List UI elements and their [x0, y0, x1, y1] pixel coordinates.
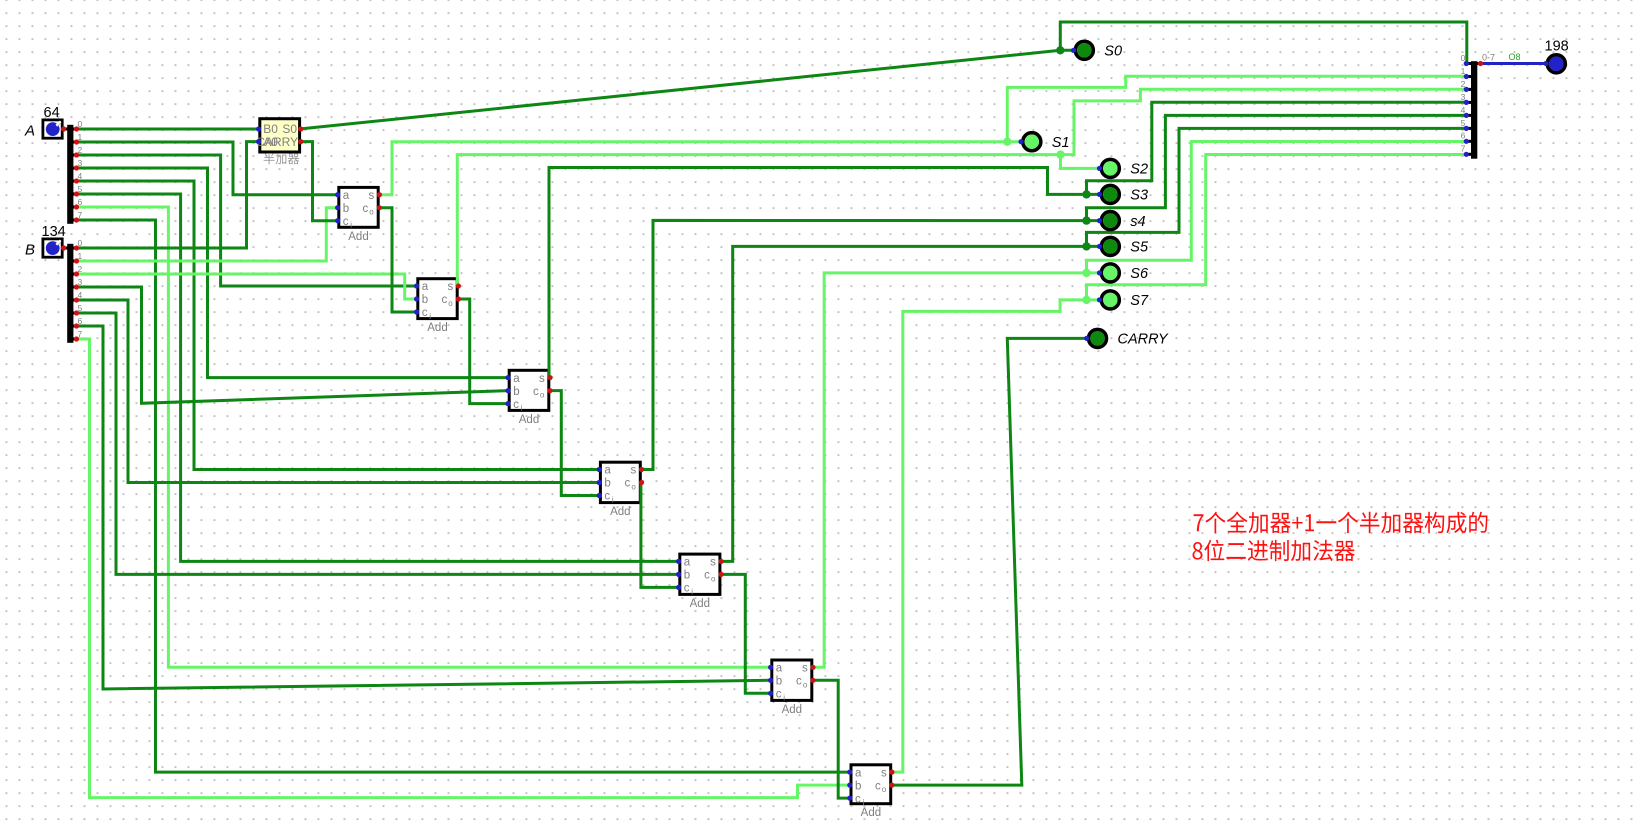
svg-text:a: a	[513, 373, 520, 385]
svg-text:O8: O8	[1509, 52, 1521, 62]
wire A7 (A bit7 to Add7 input a)	[77, 220, 853, 772]
svg-text:a: a	[855, 767, 862, 779]
svg-text:o: o	[711, 574, 716, 583]
svg-text:c: c	[875, 780, 881, 792]
svg-text:s: s	[881, 767, 887, 779]
wire B3 (B bit3 to Add3 input b, diagonal)	[77, 287, 509, 403]
svg-text:64: 64	[44, 105, 60, 121]
svg-text:b: b	[855, 780, 861, 792]
svg-text:o: o	[882, 785, 887, 794]
svg-text:S2: S2	[1130, 162, 1148, 178]
half-adder label 半加器	[264, 153, 300, 164]
svg-text:i: i	[612, 496, 614, 505]
svg-text:s: s	[802, 663, 808, 675]
svg-text:S0: S0	[1104, 44, 1122, 60]
input pin A (value 64)	[24, 105, 62, 140]
output led S1	[1023, 133, 1070, 151]
svg-text:i: i	[691, 587, 693, 596]
wire B6 (B bit6 to Add6 input b, diagonal)	[77, 326, 771, 689]
svg-text:i: i	[350, 221, 352, 230]
wire A1 (A bit1 to Add1 input a)	[77, 142, 340, 195]
wire carry c3 (Add3 c_o to Add4 c_i)	[548, 391, 602, 496]
svg-text:i: i	[521, 404, 523, 413]
wire S5 (Add5 s to led S5 and output splitter bit5)	[719, 246, 1099, 561]
splitter B (1x8)	[64, 244, 77, 343]
wire A2 (A bit2 to Add2 input a)	[77, 155, 419, 286]
output led S0	[1075, 41, 1122, 59]
wire S0 (half-adder S0 to led S0 and output splitter bit0, diagonal)	[301, 50, 1073, 129]
svg-text:c: c	[343, 216, 349, 228]
svg-text:b: b	[422, 294, 428, 306]
wire B1 (B bit1 to Add1 input b)	[77, 208, 338, 261]
svg-text:i: i	[429, 312, 431, 321]
wire A6 (A bit6 to Add6 input a)	[77, 207, 773, 667]
wire A4 (A bit4 to Add4 input a)	[77, 181, 602, 470]
svg-text:Add: Add	[427, 322, 447, 334]
svg-text:b: b	[684, 570, 690, 582]
svg-text:a: a	[776, 663, 783, 675]
full adder U2 (Add, bit 1)	[339, 187, 378, 242]
svg-text:b: b	[343, 203, 349, 215]
output led S6	[1101, 264, 1149, 282]
svg-text:a: a	[422, 281, 429, 293]
svg-text:c: c	[513, 399, 519, 411]
svg-text:s: s	[368, 190, 374, 202]
svg-text:o: o	[631, 483, 636, 492]
svg-text:Add: Add	[782, 704, 802, 716]
wire S3 (Add3 s to led S3 and output splitter bit3)	[549, 168, 1099, 377]
bus wire O8 (splitter to output pin 198)	[1481, 62, 1547, 65]
svg-text:b: b	[776, 676, 782, 688]
wire A3 (A bit3 to Add3 input a)	[77, 168, 511, 378]
annotation text line 1	[1194, 512, 1488, 534]
svg-text:CARRY: CARRY	[1118, 332, 1170, 348]
full adder U8 (Add, bit 7)	[851, 765, 891, 819]
svg-text:S7: S7	[1130, 293, 1149, 309]
wire B5 (B bit5 to Add5 input b)	[77, 313, 679, 574]
output led S3	[1101, 185, 1148, 203]
wire S7 (Add7 s to led S7 and output splitter bit7)	[890, 300, 1099, 772]
svg-text:Add: Add	[348, 231, 368, 243]
svg-text:198: 198	[1545, 39, 1569, 55]
splitter-combiner (8x1) for output	[1466, 61, 1480, 159]
output led S5	[1101, 237, 1149, 255]
svg-text:Add: Add	[690, 598, 710, 610]
svg-text:o: o	[448, 299, 453, 308]
svg-text:b: b	[513, 386, 519, 398]
svg-text:a: a	[684, 557, 691, 569]
svg-text:c: c	[362, 203, 368, 215]
svg-text:i: i	[783, 693, 785, 702]
svg-text:c: c	[604, 491, 610, 503]
svg-text:s: s	[539, 373, 545, 385]
svg-text:S1: S1	[1052, 135, 1070, 151]
svg-text:i: i	[863, 798, 865, 807]
wire B2 (B bit2 to Add2 input b)	[77, 274, 417, 299]
half-adder U1 (custom component 半加器)	[256, 119, 299, 152]
wire carry c2 (Add2 c_o to Add3 c_i)	[456, 299, 510, 404]
output led s4	[1101, 212, 1145, 230]
wire B7 (B bit7 to Add7 input b)	[77, 339, 851, 798]
output led CARRY	[1089, 329, 1170, 347]
full adder U3 (Add, bit 2)	[418, 279, 457, 334]
svg-text:S3: S3	[1130, 188, 1148, 204]
svg-text:Add: Add	[610, 506, 630, 518]
full adder U6 (Add, bit 5)	[680, 554, 720, 610]
input pin B (value 134)	[25, 224, 66, 259]
svg-text:c: c	[796, 676, 802, 688]
svg-text:a: a	[604, 465, 611, 477]
wire carry c6 (Add6 c_o to Add7 c_i)	[811, 680, 852, 798]
svg-text:S5: S5	[1130, 240, 1149, 256]
svg-text:s4: s4	[1130, 214, 1145, 230]
full adder U7 (Add, bit 6)	[772, 660, 812, 716]
svg-text:S6: S6	[1130, 266, 1149, 282]
splitter A (1x8)	[64, 125, 77, 224]
wire carry c5 (Add5 c_o to Add6 c_i)	[719, 574, 773, 693]
svg-text:c: c	[441, 294, 447, 306]
svg-text:134: 134	[42, 224, 66, 240]
svg-text:b: b	[604, 478, 610, 490]
svg-text:o: o	[540, 391, 545, 400]
svg-text:c: c	[625, 478, 631, 490]
wire carry c1 (Add1 c_o to Add2 c_i)	[377, 208, 419, 312]
svg-text:A: A	[24, 123, 35, 140]
svg-text:s: s	[710, 557, 716, 569]
svg-text:Add: Add	[861, 807, 881, 819]
wire S6 (Add6 s to led S6 and output splitter bit6)	[811, 273, 1099, 667]
wire A5 (A bit5 to Add5 input a)	[77, 194, 681, 561]
full adder U4 (Add, bit 3)	[509, 370, 549, 426]
svg-text:c: c	[776, 689, 782, 701]
svg-text:c: c	[533, 386, 539, 398]
svg-text:B: B	[25, 242, 35, 259]
wire S1 (Add1 s to led S1 and output splitter bit1)	[377, 142, 1020, 195]
svg-text:Add: Add	[519, 414, 539, 426]
svg-text:CARRY: CARRY	[256, 135, 298, 149]
output led S2	[1101, 159, 1148, 177]
annotation text line 2	[1192, 540, 1354, 562]
wire carry c0 (half-adder CARRY to Add1 c_i)	[301, 142, 340, 221]
output led S7	[1101, 291, 1149, 309]
svg-text:o: o	[369, 208, 374, 217]
wire A0 (A bit0 to half-adder B0 input)	[77, 128, 259, 131]
wire carry out (Add7 c_o to CARRY led, long diagonal riser)	[890, 338, 1086, 785]
svg-text:a: a	[343, 190, 350, 202]
svg-text:s: s	[447, 281, 453, 293]
wire S4 (Add4 s to led s4 and output splitter bit4)	[639, 220, 1099, 469]
svg-text:o: o	[803, 680, 808, 689]
svg-text:0-7: 0-7	[1482, 53, 1495, 63]
output pin 198	[1545, 39, 1569, 73]
svg-text:s: s	[631, 465, 637, 477]
wire S2 (Add2 s to led S2 and output splitter bit2)	[457, 89, 1466, 285]
svg-text:c: c	[684, 583, 690, 595]
wire B4 (B bit4 to Add4 input b)	[77, 300, 600, 483]
wire B0 (B bit0 to half-adder A0 input)	[77, 142, 259, 248]
svg-text:c: c	[704, 570, 710, 582]
svg-text:c: c	[855, 793, 861, 805]
svg-text:c: c	[422, 307, 428, 319]
full adder U5 (Add, bit 4)	[600, 462, 640, 518]
wire carry c4 (Add4 c_o to Add5 c_i)	[639, 483, 681, 588]
